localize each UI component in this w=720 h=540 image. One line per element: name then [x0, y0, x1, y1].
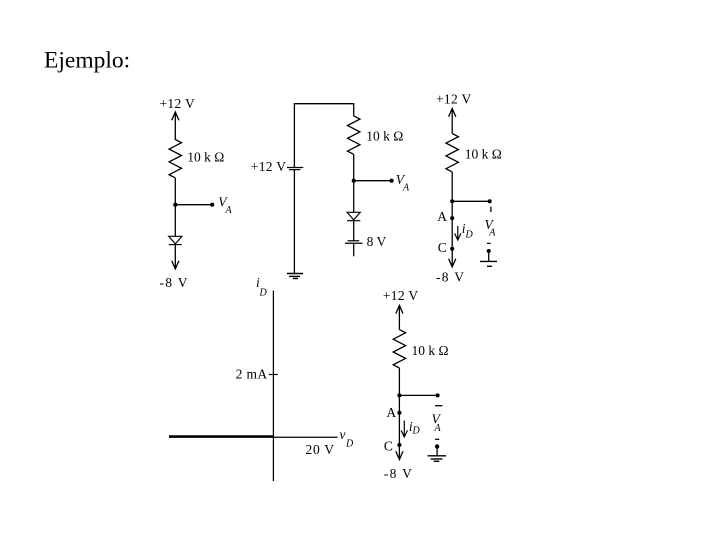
node dot above ground (circuit 3) — [487, 249, 491, 253]
svg-text:A: A — [402, 182, 410, 193]
svg-text:D: D — [465, 230, 474, 241]
wire resistor to diode (circuit 1) — [174, 178, 176, 236]
svg-text:+12 V: +12 V — [383, 288, 419, 303]
svg-text:D: D — [345, 439, 354, 450]
graph diode curve thick segment — [169, 435, 274, 438]
battery V1 +12V plates (circuit 2) — [287, 168, 303, 170]
graph horizontal axis (vD) — [273, 436, 337, 438]
svg-text:A: A — [386, 405, 396, 420]
wire to VA tap (circuit 1) — [175, 204, 212, 206]
node C dot (circuit 4) — [397, 443, 401, 447]
wire to VA tap (circuit 4) — [399, 394, 437, 396]
svg-text:C: C — [438, 240, 447, 255]
svg-text:Ejemplo:: Ejemplo: — [44, 48, 130, 74]
wire battery to ground (circuit 2) — [293, 170, 295, 274]
wire to VA tap (circuit 2) — [354, 180, 392, 182]
wire with down arrow to -8V (circuit 1) — [172, 245, 179, 269]
svg-text:A: A — [437, 209, 447, 224]
iD current label (circuit 4) — [409, 419, 421, 437]
node VA terminal dot (circuit 1) — [210, 203, 214, 207]
wire to VA tap (circuit 3) — [452, 200, 490, 202]
wire dot to ground (circuit 3) — [488, 251, 490, 261]
minus polarity mark upper (circuit 4) — [435, 405, 442, 407]
svg-text:10 k Ω: 10 k Ω — [366, 129, 403, 144]
svg-text:20 V: 20 V — [306, 442, 335, 457]
wire stub below VA dot (circuit 3) — [490, 207, 492, 212]
iD current arrow (circuit 4) — [401, 421, 407, 438]
down arrowhead to -8V (circuit 3) — [449, 259, 456, 267]
svg-text:D: D — [412, 426, 421, 437]
minus polarity mark lower (circuit 4) — [435, 438, 439, 440]
resistor R2 10k (circuit 2) — [348, 116, 360, 154]
svg-text:D: D — [259, 288, 268, 299]
svg-text:+12 V: +12 V — [436, 92, 472, 107]
svg-text:8 V: 8 V — [367, 234, 387, 249]
iD current label (circuit 3) — [462, 221, 474, 241]
resistor R1 10k (circuit 1) — [169, 140, 181, 178]
svg-text:A: A — [488, 227, 496, 238]
diode D2 (circuit 2) — [347, 212, 360, 220]
svg-text:v: v — [340, 427, 346, 442]
svg-text:+12 V: +12 V — [160, 96, 196, 111]
wire diode to battery (circuit 2) — [353, 221, 355, 241]
node junction dot (circuit 3) — [450, 199, 454, 203]
graph 2mA tick — [269, 374, 278, 376]
wire resistor to diode (circuit 2) — [353, 154, 355, 212]
node junction dot (circuit 2) — [352, 179, 356, 183]
ground symbol (circuit 2) — [287, 274, 303, 279]
svg-text:A: A — [434, 423, 442, 434]
svg-text:A: A — [225, 205, 233, 216]
node VA label (circuit 4) — [432, 412, 442, 435]
iD current arrow (circuit 3) — [455, 226, 461, 240]
svg-text:10 k Ω: 10 k Ω — [465, 147, 502, 162]
diode D1 (circuit 1) — [169, 236, 182, 244]
wire with up arrow from +12V supply (circuit 4) — [396, 305, 403, 329]
svg-text:-8 V: -8 V — [160, 275, 189, 290]
node C dot (circuit 3) — [450, 247, 454, 251]
wire stub below battery (circuit 2) — [353, 243, 355, 256]
node A dot (circuit 4) — [397, 411, 401, 415]
svg-text:-8 V: -8 V — [384, 466, 413, 481]
svg-text:+12 V: +12 V — [251, 159, 286, 174]
svg-text:C: C — [384, 439, 393, 454]
resistor R4 10k (circuit 4) — [393, 330, 405, 368]
node VA terminal dot (circuit 3) — [488, 199, 492, 203]
wire dot to ground (circuit 4) — [436, 447, 438, 456]
down arrowhead to -8V (circuit 4) — [396, 451, 403, 459]
node dot above ground (circuit 4) — [435, 444, 439, 448]
node junction dot (circuit 4) — [397, 393, 401, 397]
wire resistor through A and C to arrow (circuit 4) — [398, 368, 400, 460]
svg-text:10 k Ω: 10 k Ω — [412, 343, 449, 358]
ground symbol (circuit 3) — [480, 261, 497, 266]
wire with up arrow from +12V supply (circuit 3) — [449, 109, 456, 134]
ground symbol (circuit 4) — [428, 456, 447, 462]
graph vD axis label — [340, 427, 355, 449]
node junction dot (circuit 1) — [173, 203, 177, 207]
node VA label (circuit 3) — [485, 217, 497, 239]
wire resistor through A and C to arrow (circuit 3) — [451, 172, 453, 267]
node VA terminal dot (circuit 4) — [436, 393, 440, 397]
node VA terminal dot (circuit 2) — [390, 179, 394, 183]
battery V2 8V plates (circuit 2) — [345, 241, 363, 243]
node A dot (circuit 3) — [450, 216, 454, 220]
wire with up arrow from +12V supply (circuit 1) — [172, 112, 179, 140]
svg-text:2 mA: 2 mA — [236, 366, 268, 381]
minus polarity mark (circuit 3) — [487, 242, 491, 244]
svg-text:10 k Ω: 10 k Ω — [187, 150, 224, 165]
wire top rail (circuit 2) — [294, 104, 353, 167]
graph iD axis label — [256, 275, 268, 299]
node VA label (circuit 1) — [218, 195, 232, 217]
node VA label (circuit 2) — [396, 172, 410, 194]
graph vertical axis (iD) — [272, 291, 274, 482]
resistor R3 10k (circuit 3) — [446, 134, 458, 172]
svg-text:-8 V: -8 V — [436, 269, 465, 284]
